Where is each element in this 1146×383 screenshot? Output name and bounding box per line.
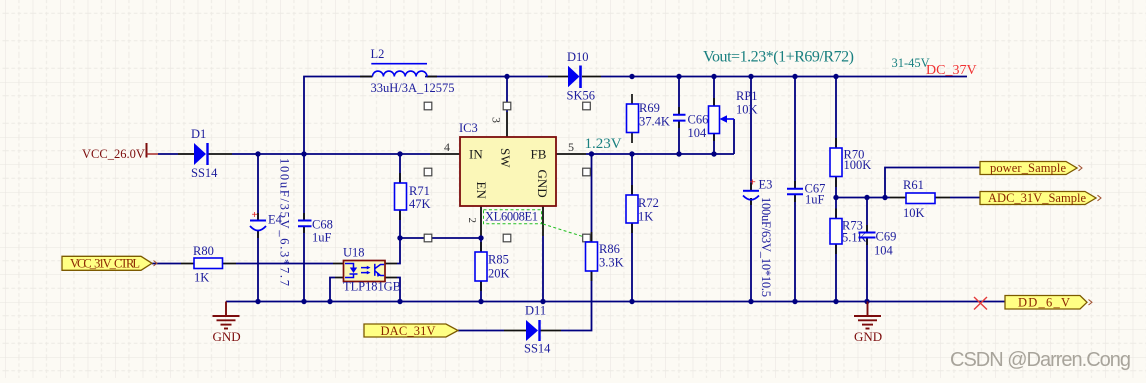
svg-text:C66: C66 <box>688 113 709 127</box>
svg-text:31-45V: 31-45V <box>892 56 930 70</box>
capacitor E4 <box>250 158 292 286</box>
capacitor C69 <box>859 230 897 258</box>
wire U18 left pins <box>333 264 344 278</box>
svg-text:SS14: SS14 <box>191 166 218 180</box>
node E3 bottom <box>748 299 753 304</box>
component pin stubs <box>258 94 867 291</box>
wire R61 pins <box>890 197 950 199</box>
resistor R80 <box>193 244 223 285</box>
svg-text:DC_37V: DC_37V <box>926 63 977 78</box>
svg-text:R71: R71 <box>409 184 430 198</box>
svg-text:SW: SW <box>498 148 513 168</box>
svg-text:C68: C68 <box>312 218 333 232</box>
node U18 pin3 gnd <box>397 299 402 304</box>
resistor R71 <box>395 183 431 211</box>
wire IC3 pin 3 SW <box>506 112 508 137</box>
svg-text:1K: 1K <box>194 271 209 285</box>
svg-text:R69: R69 <box>639 101 660 115</box>
wire R72 branch <box>631 154 633 302</box>
node IC GND bottom <box>540 299 545 304</box>
svg-text:VCC_26.0V: VCC_26.0V <box>82 147 145 161</box>
svg-text:47K: 47K <box>409 197 431 211</box>
svg-text:1K: 1K <box>638 210 653 224</box>
resistor R73 <box>830 219 867 245</box>
svg-text:5: 5 <box>568 140 574 154</box>
svg-text:Vout=1.23*(1+R69/R72): Vout=1.23*(1+R69/R72) <box>703 49 854 66</box>
port DD_6_V <box>1005 295 1092 309</box>
node C67 top <box>792 74 797 79</box>
capacitor C67 <box>787 182 825 207</box>
svg-text:20K: 20K <box>488 267 510 281</box>
no-ERC marker red X <box>974 297 987 310</box>
resistor R86 <box>586 242 624 271</box>
svg-text:IN: IN <box>469 147 483 162</box>
svg-text:104: 104 <box>688 126 708 140</box>
node power branch <box>882 195 887 200</box>
wire IC3 pin 2 EN <box>480 206 482 236</box>
node U18 pin2 gnd <box>327 299 332 304</box>
node R85 bottom <box>478 299 483 304</box>
capacitor C68 <box>298 218 333 245</box>
node R70 top <box>833 74 838 79</box>
wire L2 to D10 <box>425 76 548 78</box>
selection handle mid-right <box>583 168 591 176</box>
svg-text:DAC_31V: DAC_31V <box>381 324 436 338</box>
wire R80 pins <box>181 263 236 265</box>
svg-text:R80: R80 <box>193 244 214 258</box>
wire D10 cathode pin <box>582 76 601 78</box>
resistor R69 <box>627 101 670 133</box>
svg-text:100uF/63V_10*10.5: 100uF/63V_10*10.5 <box>759 197 773 297</box>
svg-text:C69: C69 <box>876 230 897 244</box>
wire C67 branch <box>794 77 796 302</box>
node FB R86 <box>589 151 594 156</box>
wire power sample line <box>885 168 980 198</box>
wire C68 branch <box>303 154 305 302</box>
wire input rail VCC to D1 <box>158 153 178 155</box>
node E3 top <box>748 74 753 79</box>
ground GND left <box>213 302 240 329</box>
PINS (black) <box>178 77 950 331</box>
wire IC GND to rail <box>542 236 544 302</box>
port ADC_31V_Sample <box>980 191 1101 205</box>
node EN R71 <box>397 235 402 240</box>
wire E3 branch <box>750 77 752 302</box>
wire D1 anode pin <box>178 153 194 155</box>
wire U18 right pins <box>385 264 397 278</box>
wire R85 branch <box>480 238 482 302</box>
node E4 top <box>255 151 260 156</box>
wire sample line <box>836 197 980 199</box>
wire IC3 pin 5 FB <box>556 153 586 155</box>
node SW junction <box>504 74 509 79</box>
wire IC3 pin 4 IN <box>430 153 460 155</box>
port VCC_31V_CTRL <box>62 256 157 270</box>
svg-text:3: 3 <box>490 117 504 123</box>
selection handle top-right <box>583 102 591 110</box>
node FB C66 <box>676 151 681 156</box>
diode D11 <box>524 304 551 356</box>
node R70 bottom <box>833 195 838 200</box>
capacitor C66 <box>673 113 708 141</box>
node R69 top <box>629 74 634 79</box>
selection handle top-left <box>424 102 432 110</box>
svg-text:10K: 10K <box>903 206 925 220</box>
wire R71 branch <box>399 154 401 238</box>
resistor R61 <box>903 178 935 220</box>
selection handle bottom-right <box>583 234 591 242</box>
svg-text:E3: E3 <box>759 178 773 192</box>
svg-text:3.3K: 3.3K <box>599 256 624 270</box>
svg-text:ADC_31V_Sample: ADC_31V_Sample <box>988 191 1086 205</box>
wire E4 branch <box>257 154 259 302</box>
diode D10 <box>567 50 595 103</box>
svg-text:U18: U18 <box>343 246 365 260</box>
wire D1 to IC3 IN <box>232 153 430 155</box>
wire D10 anode pin <box>548 76 568 78</box>
svg-text:SS14: SS14 <box>524 342 551 356</box>
svg-text:power_Sample: power_Sample <box>990 161 1066 175</box>
svg-text:GND: GND <box>854 329 882 344</box>
node FB RP1 <box>711 151 716 156</box>
svg-text:CSDN @Darren.Cong: CSDN @Darren.Cong <box>950 349 1131 371</box>
node C69 top <box>864 195 869 200</box>
resistor R70 <box>830 148 871 177</box>
svg-text:IC3: IC3 <box>459 121 478 135</box>
capacitor E3 <box>743 177 773 298</box>
svg-text:RP1: RP1 <box>736 89 758 103</box>
node EN R85 <box>478 235 483 240</box>
node C68 bottom <box>301 299 306 304</box>
wire FB line <box>586 153 734 155</box>
svg-text:EN: EN <box>474 182 489 200</box>
wire R70 branch <box>835 77 837 198</box>
wire U18 pin2 to ground <box>330 278 335 302</box>
svg-text:100K: 100K <box>844 158 872 172</box>
optocoupler U18 <box>343 246 401 294</box>
node FB R72 <box>629 151 634 156</box>
node C69 bottom <box>864 299 869 304</box>
diode D1 <box>191 127 218 180</box>
svg-text:+: + <box>750 177 756 189</box>
svg-text:GND: GND <box>213 329 241 344</box>
selection handle top-mid <box>503 102 511 110</box>
port power_Sample <box>980 161 1082 175</box>
node R71 top <box>397 151 402 156</box>
port DAC_31V <box>364 324 458 338</box>
node C66 top <box>676 74 681 79</box>
wire EN line <box>400 237 481 239</box>
svg-text:R72: R72 <box>638 196 659 210</box>
svg-text:1.23V: 1.23V <box>585 136 622 152</box>
node RP1 top <box>711 74 716 79</box>
potentiometer RP1 <box>709 89 758 134</box>
power port VCC_26.0V <box>82 143 158 161</box>
wire D10 to DC_37V end <box>601 76 967 78</box>
svg-text:1uF: 1uF <box>805 193 825 207</box>
svg-text:104: 104 <box>874 244 894 258</box>
svg-text:VCC_31V_CTRL: VCC_31V_CTRL <box>70 257 140 271</box>
svg-text:DD_6_V: DD_6_V <box>1018 295 1070 309</box>
svg-text:1uF: 1uF <box>312 231 332 245</box>
svg-text:37.4K: 37.4K <box>639 115 670 129</box>
svg-text:SK56: SK56 <box>567 89 595 103</box>
node R73 bottom <box>833 299 838 304</box>
wire RP1 branch <box>714 77 734 155</box>
op-amp U1 IC3 XL6008E1 <box>444 117 586 238</box>
inductor L2 <box>360 47 455 95</box>
wire top rail left riser <box>304 77 372 155</box>
wire R73 branch <box>835 198 837 302</box>
svg-text:GND: GND <box>535 170 550 198</box>
svg-text:XL6008E1: XL6008E1 <box>485 210 538 224</box>
wire IC3 pin 1 GND <box>542 206 544 236</box>
svg-text:TLP181GB: TLP181GB <box>343 280 401 294</box>
svg-text:33uH/3A_12575: 33uH/3A_12575 <box>371 81 455 95</box>
svg-text:+: + <box>252 209 258 221</box>
wire bottom ground rail <box>226 301 1005 303</box>
wire R86 branch <box>561 154 592 331</box>
svg-text:D1: D1 <box>191 127 206 141</box>
wire U18 pin4 to EN node <box>397 238 400 264</box>
wire D1 cathode pin <box>209 153 233 155</box>
wire SW riser <box>506 77 508 113</box>
node R72 bottom <box>629 299 634 304</box>
selection handle bottom-mid <box>503 234 511 242</box>
wire U18 pin3 to ground <box>397 278 400 302</box>
wire D11 anode pin <box>504 330 526 332</box>
svg-text:R61: R61 <box>903 178 924 192</box>
resistor R85 <box>475 252 510 281</box>
svg-text:2: 2 <box>466 218 478 224</box>
wire C66 branch <box>678 77 680 155</box>
svg-text:FB: FB <box>531 147 547 162</box>
svg-text:D10: D10 <box>567 50 589 64</box>
svg-text:4: 4 <box>444 140 450 154</box>
node C67 bottom <box>792 299 797 304</box>
wire D11 cathode pin <box>541 330 562 332</box>
svg-text:R85: R85 <box>488 253 509 267</box>
svg-text:D11: D11 <box>525 304 546 318</box>
svg-text:100uF/35V_6.3*7.7: 100uF/35V_6.3*7.7 <box>278 158 292 286</box>
selection handle mid-left <box>424 168 432 176</box>
selection handle bottom-left <box>424 234 432 242</box>
svg-text:10K: 10K <box>736 103 758 117</box>
resistor R72 <box>626 195 659 224</box>
node E4 bottom <box>255 299 260 304</box>
svg-text:R86: R86 <box>599 242 620 256</box>
node C68 top <box>301 151 306 156</box>
wire R80 to U18 <box>152 263 333 265</box>
ground GND right <box>854 302 881 329</box>
wire C69 branch <box>866 198 868 302</box>
svg-text:L2: L2 <box>371 47 385 61</box>
wire DAC line <box>458 330 504 332</box>
